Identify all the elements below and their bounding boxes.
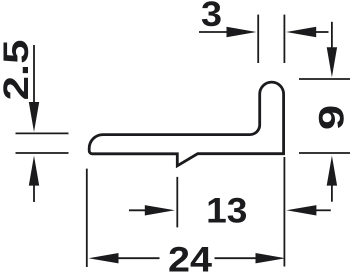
dim 3: right arrow (points left) [286, 27, 316, 37]
dim 24: left extension line [86, 169, 88, 267]
dim 24: right dimension line [215, 257, 257, 259]
dim 24: right arrow (points right) [256, 253, 286, 263]
dim 9: bottom extension line [299, 152, 350, 154]
dim 2.5: up arrow tail [33, 184, 35, 202]
svg-text:13: 13 [206, 190, 247, 230]
dim 2.5: down arrow [29, 102, 39, 132]
dim 2.5: top extension line [16, 132, 69, 134]
dim 9: top extension line [299, 78, 350, 80]
dim 3: left extension line [257, 15, 259, 63]
dim 13: right extension line [283, 157, 285, 267]
dim 24: left dimension line [117, 257, 160, 259]
dim 9: upper dimension line [331, 22, 333, 49]
dim 3: right dimension line tail [316, 31, 329, 33]
dim 3: left dimension line tail [199, 31, 228, 33]
dim 3: left arrow (points right) [227, 27, 257, 37]
dim 13: right dimension line tail [316, 209, 331, 211]
dim 9: up arrow [327, 156, 337, 186]
dim 3: right extension line [283, 15, 285, 63]
svg-text:24: 24 [168, 240, 212, 277]
dim 13: left arrow (points right) [145, 205, 175, 215]
dim 13: left dimension line tail [129, 209, 146, 211]
dim 9: down arrow [327, 47, 337, 77]
svg-text:9: 9 [312, 105, 350, 130]
dim 24: left arrow (points left) [89, 253, 119, 263]
dim 2.5: dimension line [33, 45, 35, 105]
svg-text:3: 3 [201, 0, 222, 34]
dim 13: right arrow (points left) [286, 205, 316, 215]
svg-text:2.5: 2.5 [0, 40, 36, 101]
dim 2.5: bottom extension line [16, 152, 69, 154]
dim 9: lower dimension line tail [331, 184, 333, 202]
dim 13: left extension line [176, 177, 178, 228]
profile outline [89, 82, 283, 166]
dim 2.5: up arrow [29, 156, 39, 186]
